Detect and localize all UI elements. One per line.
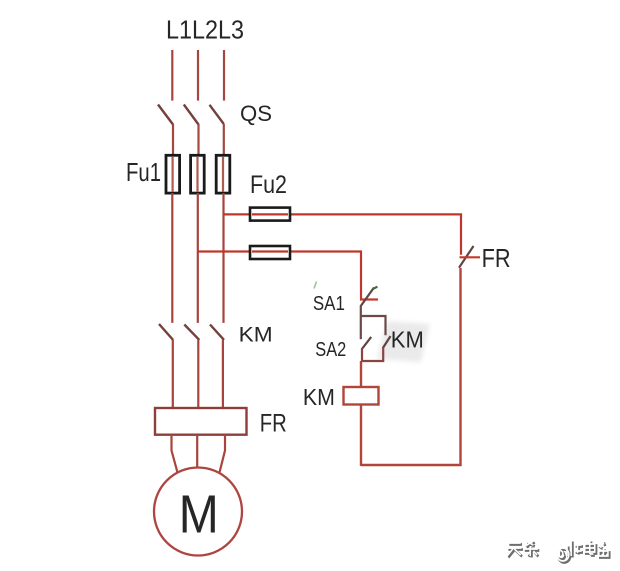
gray erased-watermark patch behind KM aux label [377, 321, 430, 362]
switch SA1 blade [361, 288, 374, 307]
wire FR contact down to bottom corner [361, 268, 461, 465]
svg-text:FR: FR [260, 409, 287, 437]
wire phase2 fuse to KM [197, 193, 199, 323]
wire phase2 QS to fuse [197, 124, 199, 156]
disconnect switch QS pole 2 blade [184, 105, 199, 125]
svg-text:SA1: SA1 [313, 293, 345, 315]
motor M circle [154, 468, 242, 556]
fuse Fu1 element 2 [191, 155, 205, 193]
wire through fuse 3 [222, 157, 224, 192]
svg-text:FR: FR [482, 243, 511, 273]
wire phase1 KM to FR box [172, 340, 174, 409]
wire phase1 QS to fuse [172, 124, 174, 156]
fuse Fu1 element 1 [166, 155, 180, 193]
switch SA2 NO blade [362, 337, 371, 349]
fuse Fu2 element 2 [250, 246, 290, 259]
thermal overload relay FR heater box [155, 408, 247, 435]
contactor KM main pole 1 blade [159, 324, 173, 340]
wire SA1 to SA2 [360, 306, 362, 340]
wire through Fu2 element 1 [252, 213, 288, 215]
wire control branch 1 horizontal from phase3 [224, 214, 461, 254]
switch SA1 NC contact bar [360, 298, 378, 300]
svg-text:QS: QS [240, 101, 272, 126]
wire SA2 to coil [360, 361, 362, 388]
wire L1 top [171, 50, 173, 101]
fuse Fu2 element 1 [250, 208, 290, 221]
wire phase3 fuse to KM [222, 193, 224, 323]
svg-text:Fu1: Fu1 [126, 157, 161, 187]
wire through fuse 1 [172, 157, 174, 192]
wire phase1 fuse to KM [171, 193, 173, 323]
wire bracket SA1 to KM aux top [361, 316, 386, 335]
svg-text:M: M [179, 484, 219, 544]
wire L2 top [197, 50, 199, 101]
svg-text:SA2: SA2 [315, 339, 346, 361]
svg-text:KM: KM [303, 384, 335, 410]
fuse Fu1 element 3 [216, 155, 230, 193]
svg-text:KM: KM [239, 324, 273, 347]
thermal relay FR NC contact blade [459, 246, 474, 268]
green tip of SA1 blade [373, 287, 378, 290]
contactor KM main pole 2 blade [184, 325, 199, 340]
wire phase2 KM to FR box [197, 340, 199, 409]
thermal relay FR NC contact bar [460, 256, 481, 258]
wire phase3 QS to fuse [223, 124, 225, 156]
contactor coil KM [344, 387, 379, 405]
svg-text:KM: KM [391, 327, 424, 353]
watermark toutiao jidianmao [507, 540, 609, 562]
svg-text:Fu2: Fu2 [250, 171, 287, 199]
contactor KM main pole 3 blade [210, 325, 224, 340]
wire FR box to motor left [172, 435, 178, 473]
wire through Fu2 element 2 [252, 250, 288, 252]
svg-text:L1L2L3: L1L2L3 [166, 15, 244, 45]
contactor KM aux NO blade [383, 336, 391, 348]
wire L3 top [223, 50, 225, 101]
disconnect switch QS pole 1 blade [158, 105, 173, 125]
wire control branch 2 horizontal from phase2 [198, 252, 361, 300]
wire phase3 KM to FR box [222, 340, 224, 409]
wire through fuse 2 [196, 157, 198, 192]
wire FR box to motor right [220, 435, 226, 473]
disconnect switch QS pole 3 blade [210, 105, 224, 124]
wire FR box to motor middle [196, 435, 198, 469]
wire coil to bottom [360, 405, 362, 467]
wire SA2 bottom and bracket to KM aux bottom [362, 348, 383, 362]
green artifact tick above SA1 [314, 282, 317, 289]
